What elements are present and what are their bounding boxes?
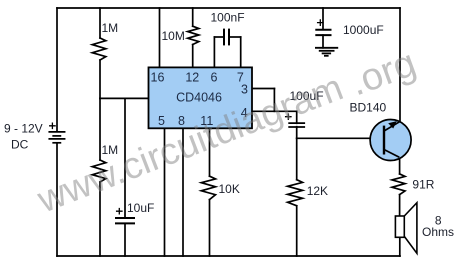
svg-text:CD4046: CD4046: [176, 90, 222, 104]
svg-text:12: 12: [185, 71, 199, 85]
svg-text:9 - 12V: 9 - 12V: [4, 122, 43, 136]
svg-text:1000uF: 1000uF: [343, 23, 384, 37]
svg-text:Ohms: Ohms: [422, 225, 454, 239]
svg-text:10K: 10K: [219, 182, 240, 196]
svg-text:10M: 10M: [162, 29, 185, 43]
svg-text:5: 5: [158, 114, 165, 128]
svg-text:100nF: 100nF: [211, 11, 245, 25]
svg-text:DC: DC: [11, 138, 29, 152]
svg-text:10uF: 10uF: [127, 201, 154, 215]
svg-text:1M: 1M: [102, 21, 119, 35]
svg-text:16: 16: [151, 71, 165, 85]
svg-text:BD140: BD140: [350, 101, 387, 115]
svg-text:3: 3: [241, 83, 248, 97]
svg-text:91R: 91R: [412, 178, 434, 192]
svg-text:6: 6: [211, 71, 218, 85]
svg-text:12K: 12K: [307, 184, 328, 198]
